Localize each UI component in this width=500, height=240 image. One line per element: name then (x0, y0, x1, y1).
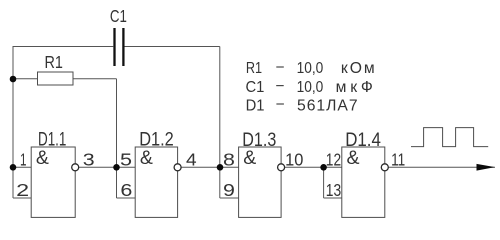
svg-text:6: 6 (120, 180, 132, 200)
svg-text:3: 3 (83, 150, 95, 170)
svg-text:&: & (140, 147, 153, 169)
svg-text:12: 12 (326, 150, 341, 170)
svg-text:R1: R1 (45, 52, 63, 72)
svg-text:D1: D1 (246, 97, 265, 114)
svg-text:13: 13 (326, 180, 341, 200)
svg-text:C1: C1 (110, 6, 127, 26)
svg-text:4: 4 (186, 150, 197, 170)
svg-text:мкФ: мкФ (336, 79, 373, 96)
svg-text:C1: C1 (246, 79, 265, 96)
svg-text:10,0: 10,0 (297, 79, 324, 96)
svg-text:R1: R1 (246, 60, 262, 77)
svg-text:9: 9 (223, 180, 235, 200)
svg-text:кОм: кОм (341, 60, 375, 77)
svg-text:8: 8 (223, 150, 235, 170)
svg-text:&: & (347, 147, 360, 169)
svg-text:1: 1 (20, 150, 27, 170)
svg-text:11: 11 (391, 150, 405, 170)
svg-text:&: & (36, 147, 49, 169)
svg-text:10,0: 10,0 (297, 60, 324, 77)
svg-text:5: 5 (120, 150, 132, 170)
svg-text:&: & (243, 147, 256, 169)
svg-text:10: 10 (285, 150, 303, 170)
svg-text:561ЛА7: 561ЛА7 (297, 97, 358, 114)
svg-text:2: 2 (16, 180, 29, 200)
